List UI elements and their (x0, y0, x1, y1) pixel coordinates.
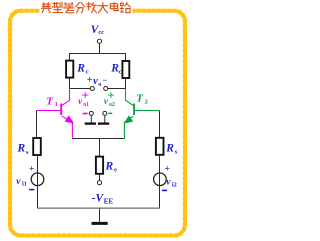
wire Rs1 to source (37, 155, 39, 173)
wire vi1 to rail (37, 186, 39, 209)
resistor Rs (left) (33, 138, 41, 155)
node vo- terminal (104, 87, 108, 91)
svg-text:s: s (175, 148, 178, 155)
wire emitter rail (72, 138, 124, 140)
svg-text:s: s (26, 149, 29, 156)
label Rc right (110, 63, 121, 76)
svg-text:+: + (107, 88, 114, 103)
resistor Rc (left) (66, 61, 73, 78)
svg-text:i2: i2 (172, 181, 177, 188)
node vo+ terminal (90, 87, 94, 91)
label vo1 (78, 88, 89, 114)
label T1 (46, 95, 58, 108)
label Rs right (165, 142, 178, 155)
svg-text:R: R (76, 63, 85, 75)
svg-text:o: o (98, 82, 101, 88)
transistor T2 (124, 89, 159, 139)
wire Rs2 to source (159, 155, 161, 173)
label vi1 (16, 177, 27, 188)
ground (left mid) (85, 111, 96, 123)
svg-text:+: + (29, 164, 34, 174)
label Rs left (17, 143, 30, 156)
svg-text:R: R (17, 143, 26, 155)
svg-text:o2: o2 (109, 102, 115, 108)
wire Vcc stem (99, 43, 101, 53)
wire left collector drop (69, 78, 71, 89)
title 典型差分放大电路 (41, 2, 130, 13)
wire vo- tap (108, 88, 126, 90)
wire vi2 to rail (159, 186, 161, 209)
svg-text:-V: -V (92, 192, 105, 204)
wire Re stem (99, 139, 101, 157)
resistor Rc (right) (122, 61, 129, 78)
svg-text:e: e (114, 167, 117, 174)
svg-text:i1: i1 (22, 181, 27, 188)
svg-text:c: c (119, 69, 122, 76)
wire bottom rail (38, 207, 160, 209)
label vi1 - (29, 189, 34, 191)
label Re (105, 161, 118, 174)
node Vcc terminal (97, 39, 101, 43)
transistor T1 (37, 89, 74, 139)
label +vo- (87, 75, 107, 88)
source vi1 (31, 173, 44, 186)
wire left base drop (36, 111, 38, 139)
svg-text:R: R (165, 142, 174, 154)
svg-text:o1: o1 (83, 102, 89, 108)
ground (right mid) (98, 111, 109, 123)
resistor Rs (right) (156, 138, 164, 155)
svg-text:EE: EE (104, 197, 114, 205)
svg-text:1: 1 (55, 101, 58, 108)
wire right collector drop (125, 78, 127, 88)
svg-text:−: − (102, 75, 107, 85)
svg-text:R: R (105, 161, 114, 173)
label Vcc (91, 24, 104, 36)
label Rc left (76, 63, 89, 76)
source vi2 (154, 173, 167, 186)
node -VEE terminal (97, 181, 101, 185)
svg-text:+: + (164, 164, 169, 174)
svg-text:cc: cc (98, 29, 104, 36)
svg-text:+: + (81, 88, 88, 103)
label -VEE (92, 192, 114, 205)
wire top rail (70, 54, 126, 62)
wire right base drop (159, 111, 161, 138)
wire below Re (99, 174, 101, 181)
label vi2 - (162, 189, 167, 191)
ground (bottom) (92, 209, 108, 224)
wire vo+ tap (70, 88, 91, 90)
svg-text:+: + (87, 75, 93, 86)
label vi2 (166, 177, 177, 188)
label vo2 (104, 88, 115, 114)
label T2 (136, 93, 148, 106)
resistor Re (96, 157, 103, 174)
